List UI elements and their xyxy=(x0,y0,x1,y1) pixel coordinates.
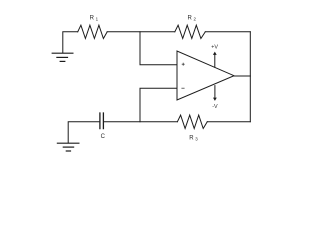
wire bottom-left from ground to capacitor xyxy=(68,122,99,143)
supply +V arrow xyxy=(214,55,216,68)
svg-text:R: R xyxy=(90,15,95,21)
wire right vertical (output net) xyxy=(249,32,251,122)
svg-text:R: R xyxy=(188,15,193,21)
op-amp minus input marker xyxy=(182,87,184,89)
resistor R2 xyxy=(175,25,206,38)
svg-text:+V: +V xyxy=(211,44,218,50)
resistor R3 xyxy=(177,115,207,128)
op-amp U1 triangle xyxy=(177,51,234,100)
svg-text:3: 3 xyxy=(195,137,198,142)
svg-text:R: R xyxy=(189,135,194,141)
wire drop from node A to non-inverting input xyxy=(140,32,177,65)
wire op-amp output xyxy=(234,75,250,77)
wire R2 to top-right corner xyxy=(205,31,250,33)
svg-text:2: 2 xyxy=(194,17,197,22)
svg-text:1: 1 xyxy=(96,17,99,22)
wire top-left from ground to R1 xyxy=(63,32,78,53)
wire capacitor to node B and R3 xyxy=(104,121,177,123)
wire R3 to bottom-right corner xyxy=(207,121,250,123)
op-amp plus input marker xyxy=(182,63,184,65)
capacitor C plates xyxy=(100,113,104,129)
supply -V arrow xyxy=(214,86,216,98)
resistor R1 xyxy=(78,25,108,38)
ground bottom-left xyxy=(57,143,79,151)
ground top-left xyxy=(52,53,73,61)
svg-text:-V: -V xyxy=(212,104,218,110)
svg-text:C: C xyxy=(101,134,106,140)
wire riser from node B to inverting input xyxy=(140,88,177,122)
wire R1 to R2 (node A) xyxy=(107,31,175,33)
